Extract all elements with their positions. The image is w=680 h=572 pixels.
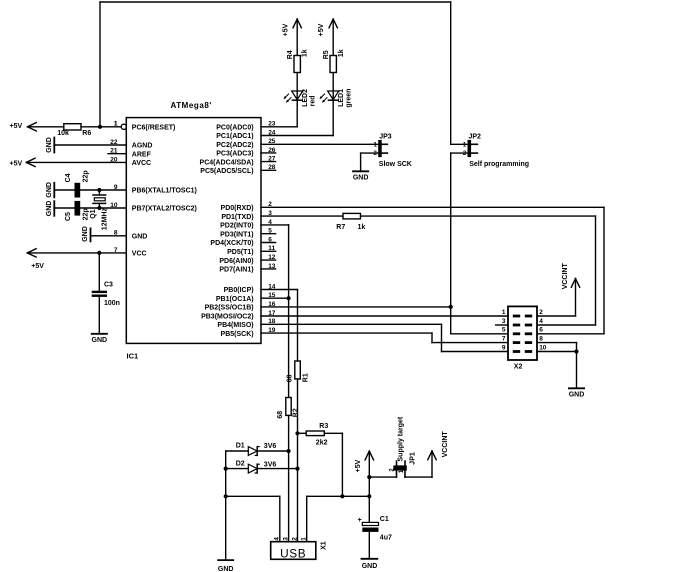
svg-text:22: 22 (110, 139, 118, 146)
svg-text:+5V: +5V (10, 161, 23, 168)
svg-text:green: green (345, 89, 352, 108)
svg-text:Slow SCK: Slow SCK (379, 161, 412, 168)
svg-text:19: 19 (268, 327, 276, 334)
svg-text:AGND: AGND (132, 143, 153, 150)
svg-text:C5: C5 (65, 212, 72, 221)
svg-text:VCC: VCC (132, 251, 147, 258)
svg-text:7: 7 (502, 335, 506, 342)
svg-text:GND: GND (46, 137, 53, 153)
svg-text:PD1(TXD): PD1(TXD) (221, 214, 253, 221)
svg-text:R4: R4 (287, 50, 294, 59)
svg-text:LED2: LED2 (302, 89, 309, 107)
svg-text:25: 25 (268, 138, 276, 145)
svg-text:5: 5 (502, 327, 506, 334)
svg-text:Supply target: Supply target (398, 416, 405, 461)
svg-text:GND: GND (82, 226, 89, 242)
svg-text:PB1(OC1A): PB1(OC1A) (216, 296, 254, 303)
svg-text:24: 24 (268, 129, 276, 136)
svg-text:GND: GND (92, 337, 108, 344)
svg-text:12: 12 (268, 254, 276, 261)
svg-text:18: 18 (268, 318, 276, 325)
svg-text:7: 7 (114, 247, 118, 254)
svg-text:USB: USB (280, 547, 306, 561)
svg-text:PD5(T1): PD5(T1) (227, 249, 253, 256)
svg-text:PB6(XTAL1/TOSC1): PB6(XTAL1/TOSC1) (132, 188, 197, 195)
svg-text:68: 68 (286, 375, 293, 383)
svg-text:22p: 22p (83, 170, 90, 182)
svg-text:4: 4 (268, 219, 272, 226)
svg-text:PC0(ADC0): PC0(ADC0) (216, 125, 253, 132)
svg-text:23: 23 (268, 121, 276, 128)
svg-text:JP3: JP3 (379, 133, 392, 140)
svg-text:PD3(INT1): PD3(INT1) (220, 231, 253, 238)
svg-text:R2: R2 (293, 408, 300, 417)
svg-text:D2: D2 (236, 461, 245, 468)
svg-text:AVCC: AVCC (132, 160, 151, 167)
svg-text:R7: R7 (336, 224, 345, 231)
svg-text:8: 8 (114, 230, 118, 237)
svg-text:GND: GND (218, 566, 234, 572)
svg-text:3: 3 (282, 537, 289, 541)
svg-text:10: 10 (539, 344, 547, 351)
svg-text:28: 28 (268, 164, 276, 171)
svg-text:1k: 1k (302, 49, 309, 57)
svg-text:PC4(ADC4/SDA): PC4(ADC4/SDA) (200, 159, 254, 166)
svg-text:4u7: 4u7 (380, 534, 392, 541)
svg-text:+5V: +5V (282, 23, 289, 36)
svg-text:1: 1 (114, 121, 118, 128)
svg-text:PD7(AIN1): PD7(AIN1) (219, 267, 253, 274)
svg-text:PB7(XTAL2/TOSC2): PB7(XTAL2/TOSC2) (132, 206, 197, 213)
svg-text:C1: C1 (380, 516, 389, 523)
svg-text:GND: GND (569, 392, 585, 399)
svg-text:5: 5 (268, 228, 272, 235)
svg-text:LED1: LED1 (338, 89, 345, 107)
svg-text:2: 2 (291, 537, 298, 541)
svg-text:Self programming: Self programming (469, 161, 529, 168)
svg-text:VCCINT: VCCINT (442, 431, 449, 458)
svg-text:26: 26 (268, 147, 276, 154)
svg-text:R6: R6 (82, 130, 91, 137)
svg-text:27: 27 (268, 156, 276, 163)
svg-text:+5V: +5V (355, 459, 362, 472)
svg-text:3V6: 3V6 (264, 461, 277, 468)
svg-text:PB3(MOSI/OC2): PB3(MOSI/OC2) (201, 314, 254, 321)
svg-text:17: 17 (268, 310, 276, 317)
svg-text:2k2: 2k2 (316, 439, 328, 446)
svg-text:JP2: JP2 (469, 133, 482, 140)
svg-text:PC3(ADC3): PC3(ADC3) (216, 151, 253, 158)
svg-text:GND: GND (353, 175, 369, 182)
svg-text:+5V: +5V (318, 23, 325, 36)
svg-text:11: 11 (268, 245, 275, 252)
svg-text:GND: GND (362, 563, 378, 570)
svg-text:PB5(SCK): PB5(SCK) (221, 331, 254, 338)
svg-text:68: 68 (277, 411, 284, 419)
svg-text:VCCINT: VCCINT (562, 263, 569, 290)
svg-text:X2: X2 (514, 364, 523, 371)
svg-text:GND: GND (46, 201, 53, 217)
svg-text:16: 16 (268, 301, 276, 308)
svg-text:21: 21 (110, 148, 118, 155)
svg-text:9: 9 (114, 184, 118, 191)
svg-text:14: 14 (268, 283, 276, 290)
svg-text:3V6: 3V6 (264, 443, 277, 450)
svg-text:4: 4 (274, 537, 281, 541)
svg-text:PD2(INT0): PD2(INT0) (220, 223, 253, 230)
svg-text:2: 2 (268, 201, 272, 208)
svg-text:JP1: JP1 (409, 452, 416, 465)
svg-text:+5V: +5V (31, 263, 44, 270)
svg-text:15: 15 (268, 292, 276, 299)
svg-text:22p: 22p (83, 208, 90, 220)
svg-text:PB0(ICP): PB0(ICP) (224, 287, 254, 294)
svg-text:3: 3 (502, 318, 506, 325)
svg-text:PB2(SS/OC1B): PB2(SS/OC1B) (205, 305, 254, 312)
svg-text:100n: 100n (104, 300, 120, 307)
svg-text:C3: C3 (104, 281, 113, 288)
svg-text:6: 6 (268, 236, 272, 243)
svg-text:1k: 1k (358, 224, 366, 231)
svg-text:PC5(ADC5/SCL): PC5(ADC5/SCL) (200, 168, 253, 175)
svg-text:1: 1 (502, 309, 506, 316)
svg-text:3: 3 (268, 210, 272, 217)
svg-text:13: 13 (268, 263, 276, 270)
svg-text:PB4(MISO): PB4(MISO) (217, 322, 253, 329)
svg-text:red: red (309, 95, 316, 106)
svg-text:AREF: AREF (132, 151, 152, 158)
svg-text:2: 2 (539, 309, 543, 316)
svg-text:4: 4 (539, 318, 543, 325)
svg-text:R5: R5 (323, 50, 330, 59)
svg-text:IC1: IC1 (127, 352, 139, 361)
svg-text:10: 10 (110, 202, 118, 209)
svg-text:C4: C4 (65, 173, 72, 182)
svg-text:GND: GND (46, 182, 53, 198)
svg-text:12MHz: 12MHz (101, 208, 108, 231)
svg-text:X1: X1 (320, 541, 327, 550)
svg-text:1k: 1k (338, 49, 345, 57)
svg-text:20: 20 (110, 156, 118, 163)
svg-text:R1: R1 (303, 373, 310, 382)
svg-text:R3: R3 (319, 423, 328, 430)
svg-text:PC2(ADC2): PC2(ADC2) (216, 142, 253, 149)
svg-text:PD0(RXD): PD0(RXD) (221, 205, 254, 212)
svg-text:PD6(AIN0): PD6(AIN0) (219, 258, 253, 265)
svg-text:GND: GND (132, 234, 148, 241)
svg-text:9: 9 (502, 344, 506, 351)
svg-text:Q1: Q1 (90, 209, 97, 218)
svg-text:D1: D1 (236, 442, 245, 449)
svg-text:+5V: +5V (10, 123, 23, 130)
svg-text:PD4(XCK/T0): PD4(XCK/T0) (210, 240, 253, 247)
svg-text:ATMega8': ATMega8' (171, 101, 212, 110)
svg-text:+: + (358, 517, 362, 524)
svg-text:PC1(ADC1): PC1(ADC1) (216, 133, 253, 140)
svg-text:1: 1 (301, 537, 308, 541)
svg-text:8: 8 (539, 335, 543, 342)
svg-text:PC6(/RESET): PC6(/RESET) (132, 125, 176, 132)
svg-text:10k: 10k (57, 130, 69, 137)
svg-text:6: 6 (539, 327, 543, 334)
